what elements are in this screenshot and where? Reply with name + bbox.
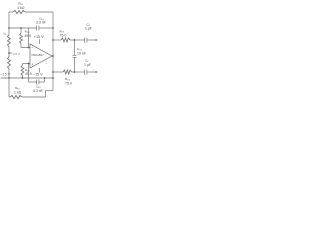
- wire top rail right: [25, 11, 53, 13]
- wire output column: [52, 12, 54, 91]
- wire bottom rail: [1, 77, 54, 79]
- resistor RF2: [9, 96, 10, 98]
- supply stub V+: [39, 39, 41, 44]
- wire out- end: [87, 71, 97, 73]
- capacitor C6: [84, 70, 86, 75]
- wire feedback to IN-: [28, 28, 30, 48]
- svg-text:1 µF: 1 µF: [84, 63, 91, 67]
- node bottom left: [8, 77, 10, 79]
- svg-text:2.5 V: 2.5 V: [13, 52, 20, 56]
- svg-text:+: +: [46, 61, 48, 65]
- svg-text:3.3 nF: 3.3 nF: [33, 89, 43, 93]
- svg-text:−: −: [31, 46, 33, 50]
- wire bottom rail right: [22, 96, 46, 98]
- svg-text:VS: VS: [3, 32, 7, 36]
- svg-text:1 kΩ: 1 kΩ: [14, 90, 22, 94]
- resistor RF1: [13, 10, 25, 13]
- source VS2: [8, 57, 11, 70]
- op-amp U1: [30, 44, 52, 68]
- svg-text:75.0: 75.0: [65, 81, 72, 85]
- wire to non-inverting input: [23, 63, 31, 65]
- svg-text:3.3 nF: 3.3 nF: [36, 21, 46, 25]
- node out- rail: [74, 71, 76, 73]
- resistor RO1: [61, 38, 70, 42]
- capacitor CF1: [36, 26, 38, 31]
- wire out+ end: [87, 39, 97, 41]
- node inverting input: [28, 47, 30, 49]
- svg-text:1 µF: 1 µF: [85, 27, 92, 31]
- supply stub V-: [39, 68, 41, 73]
- node RG1 top: [20, 27, 22, 29]
- resistor RG2: [22, 64, 24, 66]
- wire out+ rail: [53, 39, 61, 41]
- wire output stub: [52, 55, 53, 57]
- wire cap rail right: [39, 27, 53, 29]
- wire IN+ to bottom cap rail: [28, 64, 30, 83]
- wire top rail left: [9, 11, 13, 13]
- svg-text:+: +: [31, 62, 33, 66]
- svg-text:OPA1637: OPA1637: [31, 53, 44, 57]
- node filter cap top: [74, 39, 76, 41]
- node A: [8, 27, 10, 29]
- svg-text:−15 V: −15 V: [33, 72, 43, 76]
- wire cap rail: [9, 27, 37, 29]
- svg-text:10 nF: 10 nF: [77, 52, 86, 56]
- wire out- rail: [53, 71, 63, 73]
- capacitor CF2: [29, 81, 37, 83]
- resistor RG1: [20, 28, 22, 33]
- svg-text:49.9: 49.9: [24, 34, 31, 38]
- capacitor C5: [84, 38, 86, 43]
- node IN+ branch: [28, 63, 30, 65]
- node mid source: [8, 52, 10, 54]
- capacitor CO1: [74, 40, 76, 55]
- resistor RO2: [63, 70, 72, 74]
- node on output column top: [52, 27, 54, 29]
- wire to inverting input: [21, 47, 30, 49]
- svg-text:+15 V: +15 V: [34, 35, 44, 39]
- svg-text:1 kΩ: 1 kΩ: [17, 6, 25, 10]
- svg-text:75.0: 75.0: [60, 34, 67, 38]
- svg-text:−15 V: −15 V: [0, 72, 10, 76]
- node RG2 bottom: [22, 77, 24, 79]
- source VS1: [8, 28, 10, 35]
- wire left vertical top: [8, 12, 10, 28]
- wire left vertical bottom: [8, 78, 10, 97]
